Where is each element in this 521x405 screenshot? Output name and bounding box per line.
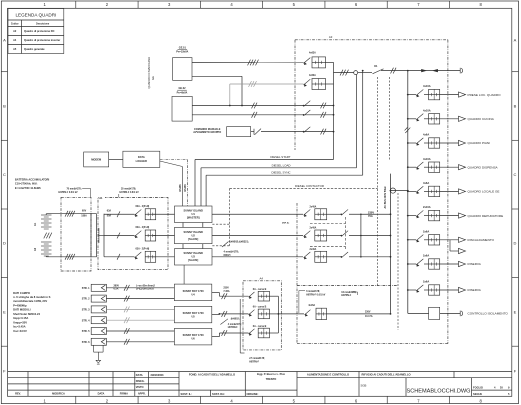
svg-text:MODEM: MODEM — [91, 158, 101, 162]
title block sheet numbers — [473, 385, 510, 396]
feeder breaker QUADRO PIANI 4x6A — [407, 133, 490, 149]
PV string STR.5 — [82, 328, 107, 335]
svg-text:B: B — [3, 104, 6, 109]
frame column ticks top/bottom — [76, 1, 450, 404]
wire DIESEL LOAD — [201, 163, 357, 206]
svg-text:DATI CAMPO: DATI CAMPO — [13, 291, 30, 295]
isolator on GE.02 neutral — [303, 110, 311, 116]
svg-text:280V: 280V — [114, 285, 120, 287]
inverter SUNNY BOY 1700 U5 — [174, 306, 211, 323]
svg-text:QUADRO LOCALE GE: QUADRO LOCALE GE — [468, 190, 500, 194]
svg-text:70A: 70A — [368, 214, 373, 218]
svg-text:STR. 3: STR. 3 — [82, 309, 90, 312]
svg-text:E: E — [3, 310, 6, 315]
title block engineers cell — [257, 372, 286, 381]
PE conductor to earth label — [219, 299, 245, 353]
svg-text:C: C — [3, 172, 6, 177]
svg-text:DATA: DATA — [136, 373, 143, 377]
wire manual start to diesel start — [261, 129, 334, 135]
svg-text:U1: U1 — [192, 212, 196, 216]
svg-text:STR. 2: STR. 2 — [82, 298, 90, 301]
svg-text:FOND. AI CADUTI DELL'ADAMELLO: FOND. AI CADUTI DELL'ADAMELLO — [189, 373, 235, 377]
panel A3 enclosure — [295, 35, 448, 150]
svg-text:63A: 63A — [107, 210, 112, 213]
svg-text:2x40A: 2x40A — [310, 248, 317, 251]
svg-text:Quadro generale: Quadro generale — [24, 47, 45, 51]
svg-text:mono/bifacciale 110W, 24V: mono/bifacciale 110W, 24V — [13, 299, 47, 303]
svg-text:C: C — [514, 172, 517, 177]
svg-text:SOST. DA:: SOST. DA: — [212, 392, 225, 396]
wire K1 to main bus — [391, 68, 461, 74]
svg-text:Uoc=43.5V: Uoc=43.5V — [13, 329, 27, 333]
generator GE.02 — [172, 87, 192, 121]
generator GE.01 — [173, 46, 192, 80]
ground — [96, 360, 101, 364]
generator merge bar — [334, 62, 354, 159]
svg-text:A: A — [3, 38, 6, 43]
wire DIESEL START — [195, 155, 334, 206]
svg-text:RS485: RS485 — [184, 184, 187, 192]
svg-text:E=4.3x2700=11.6kWh: E=4.3x2700=11.6kWh — [15, 186, 41, 190]
svg-text:CONTROLLO ISOLAMENTO: CONTROLLO ISOLAMENTO — [468, 312, 509, 316]
svg-text:GE.01: GE.01 — [179, 46, 187, 49]
svg-text:4x10A: 4x10A — [423, 157, 431, 161]
svg-text:FIRMA: FIRMA — [120, 392, 128, 396]
svg-text:H07RN-F: H07RN-F — [341, 295, 351, 297]
svg-text:6A - curva B: 6A - curva B — [253, 306, 267, 309]
busbar rating labels — [107, 210, 112, 218]
svg-text:RISERVA: RISERVA — [468, 262, 482, 266]
svg-text:H07RN-F: H07RN-F — [249, 361, 259, 363]
A4 earth cable label — [249, 358, 265, 363]
bus conductor marker — [405, 128, 411, 134]
title block filename — [406, 388, 470, 394]
RS485 labels at inverter — [179, 184, 187, 192]
wire GE.01 second to bypass — [192, 76, 243, 106]
PV string STR.4 — [82, 317, 107, 324]
feeder breaker QUADRO CUCINA 4x10A — [407, 108, 495, 124]
wire GE.02 riser to A3 breaker 2 — [229, 81, 304, 106]
svg-text:AC BUS 240V 50Hz: AC BUS 240V 50Hz — [384, 186, 387, 209]
svg-text:K1: K1 — [374, 64, 378, 68]
signal risers to generator controls — [357, 70, 364, 176]
svg-text:[SLAVE]: [SLAVE] — [188, 258, 198, 262]
feeder breaker RISERVA 2x6A — [407, 280, 482, 296]
frame row ticks left/right — [1, 72, 518, 347]
svg-text:2x6A: 2x6A — [423, 229, 429, 233]
svg-text:STR. 1: STR. 1 — [82, 287, 90, 290]
PV string STR.3 — [82, 306, 107, 313]
svg-text:D: D — [3, 241, 6, 246]
svg-text:QUADRO DEPURATORE: QUADRO DEPURATORE — [468, 214, 504, 218]
panel A5 enclosure — [297, 40, 448, 344]
svg-text:SUNNY ISLAND: SUNNY ISLAND — [183, 230, 203, 234]
svg-text:4x10A: 4x10A — [423, 108, 431, 112]
svg-text:6A - curva B: 6A - curva B — [253, 325, 267, 328]
svg-text:230V: 230V — [223, 288, 229, 290]
feeder breaker QUADRO LOCALE GE 4x6A — [407, 181, 500, 197]
wire U4 AC output to A4 — [212, 293, 249, 300]
PV string STR.2 — [82, 295, 107, 302]
battery fuse marks positive — [65, 211, 75, 217]
svg-text:n. 6 stringhe da 8 moduli in S: n. 6 stringhe da 8 moduli in S — [13, 295, 51, 299]
title block grid — [8, 372, 512, 397]
inverter SUNNY ISLAND U3 — [175, 249, 213, 265]
svg-text:70 mm&#178;: 70 mm&#178; — [66, 189, 81, 191]
wire string 5 to inverter — [106, 328, 174, 334]
svg-text:ALIMENTAZIONE E CONTROLLO: ALIMENTAZIONE E CONTROLLO — [307, 373, 349, 377]
svg-text:600V=: 600V= — [224, 253, 232, 257]
inverter SUNNY ISLAND U1 — [175, 206, 213, 223]
cable labels above PV line breaker — [299, 291, 358, 313]
svg-text:6.5A: 6.5A — [114, 288, 119, 291]
svg-text:Quadro di protezione DC: Quadro di protezione DC — [24, 29, 55, 33]
svg-text:LEGENDA QUADRI: LEGENDA QUADRI — [15, 13, 56, 18]
svg-text:DATA: DATA — [98, 392, 105, 396]
inverter output neutral tie — [360, 213, 362, 257]
svg-text:RISERVA: RISERVA — [468, 288, 482, 292]
battery G1 — [34, 215, 51, 229]
svg-text:STR. 5: STR. 5 — [82, 330, 90, 333]
wire DIESEL SYNC — [206, 171, 363, 206]
wire U6 AC output to A4 — [212, 330, 249, 337]
svg-text:DATI MODULI: DATI MODULI — [13, 308, 31, 312]
svg-text:SUNNY BOY 1700: SUNNY BOY 1700 — [183, 290, 205, 293]
feeder to distribution with meter — [390, 188, 408, 193]
SB output labels — [223, 288, 230, 293]
AC bus rating label — [368, 211, 374, 218]
svg-text:60V: 60V — [82, 211, 87, 213]
RS485 link from logger — [160, 160, 188, 207]
svg-text:Codice: Codice — [11, 23, 19, 25]
svg-text:29/02/2003: 29/02/2003 — [151, 373, 165, 377]
energy meter — [354, 71, 358, 75]
svg-text:BATTERIA ACCUMULATORI: BATTERIA ACCUMULATORI — [15, 178, 50, 182]
battery wire rating labels — [81, 211, 87, 218]
breaker A2.3 2x40A — [304, 248, 391, 262]
feeder breaker PRESE LOC. QUADRO 4x10A — [407, 84, 501, 100]
modem box — [84, 152, 109, 167]
breaker A2.2 2x40A — [304, 227, 391, 242]
svg-text:RS485: RS485 — [179, 184, 182, 192]
svg-text:A4: A4 — [260, 277, 264, 281]
wire string 1 to inverter — [106, 285, 174, 291]
svg-text:Quadro di protezione inverter: Quadro di protezione inverter — [24, 38, 60, 42]
svg-text:H07RN-F 0.6/1 kV: H07RN-F 0.6/1 kV — [120, 192, 140, 194]
breaker A4.3 6A curva B — [249, 325, 279, 338]
contactor mechanical linkage (dashed) — [310, 217, 346, 250]
changeover contactor K1 — [358, 64, 408, 74]
svg-text:U3: U3 — [192, 255, 196, 259]
breaker A4.2 6A curva B — [249, 306, 279, 319]
svg-text:Isc=3.45A: Isc=3.45A — [13, 325, 26, 329]
wire inverter U2 AC output — [212, 235, 303, 237]
svg-text:SEGUE: SEGUE — [473, 392, 482, 396]
svg-text:SCHEMABLOCCHI.DWG: SCHEMABLOCCHI.DWG — [406, 388, 470, 394]
svg-text:230V: 230V — [365, 311, 371, 313]
svg-text:SUNNY BOY 1700: SUNNY BOY 1700 — [183, 334, 205, 337]
isolator on GE.02 phase — [303, 101, 311, 107]
svg-text:Pn=6kVA: Pn=6kVA — [177, 92, 188, 95]
battery cells continuation marks — [44, 233, 52, 239]
distribution bus — [407, 71, 409, 314]
wire inverter U1 AC output — [212, 213, 303, 215]
PV feeder rating label — [365, 311, 373, 318]
svg-text:10.17A: 10.17A — [365, 315, 373, 318]
svg-text:&#9002;&#8321;: &#9002;&#8321; — [229, 240, 249, 244]
svg-text:QUADRO PIANI: QUADRO PIANI — [468, 141, 491, 145]
svg-text:MODIFICA: MODIFICA — [52, 392, 65, 396]
svg-text:QUADRO CUCINA: QUADRO CUCINA — [468, 117, 495, 121]
svg-text:180A: 180A — [81, 215, 87, 218]
svg-text:[SLAVE]: [SLAVE] — [188, 237, 198, 241]
wire GE.02 phase — [192, 103, 334, 109]
svg-text:6 mm&#178;: 6 mm&#178; — [306, 291, 320, 293]
breaker A3.2 4x63A — [304, 74, 334, 89]
svg-text:DIESEL LOAD: DIESEL LOAD — [272, 163, 291, 167]
svg-text:Pn=15kVA: Pn=15kVA — [176, 51, 188, 54]
svg-text:QUADRO DI MACCHINA: QUADRO DI MACCHINA — [147, 57, 151, 89]
svg-text:63A - 2(P+N): 63A - 2(P+N) — [136, 248, 150, 251]
PV line breaker 4x16A — [305, 304, 392, 320]
svg-text:A3: A3 — [329, 35, 333, 39]
panel A1 enclosure — [98, 196, 168, 270]
svg-text:Shell Solar SM110-24: Shell Solar SM110-24 — [13, 312, 40, 316]
PV string STR.6 — [82, 338, 107, 345]
DC busbar — [91, 214, 104, 257]
svg-text:DIESEL CONTACTOR: DIESEL CONTACTOR — [295, 184, 324, 188]
svg-text:A: A — [514, 38, 517, 43]
contactor K1 enclosure (dashed) — [378, 77, 390, 286]
PV field data text — [13, 291, 51, 333]
svg-text:2P(C)/GRG30US: 2P(C)/GRG30US — [136, 289, 154, 291]
title block sheet title cell — [307, 373, 349, 377]
svg-text:H07RN-F 0.6/1 kV: H07RN-F 0.6/1 kV — [306, 294, 326, 296]
svg-text:DIESEL SYNC: DIESEL SYNC — [271, 171, 290, 175]
title block SGB code — [361, 384, 367, 388]
svg-text:REV.: REV. — [15, 392, 21, 396]
cable callout 4mm2 — [220, 319, 241, 329]
svg-text:2x10A: 2x10A — [423, 205, 431, 209]
svg-text:16 mm&#178;: 16 mm&#178; — [341, 292, 356, 294]
wire inverter U3 AC output — [212, 256, 303, 258]
isolator on start command — [303, 127, 311, 133]
svg-text:SUNNY ISLAND: SUNNY ISLAND — [183, 209, 203, 213]
breaker A4.1 6A curva B — [249, 288, 279, 301]
svg-text:DATA: DATA — [138, 155, 145, 159]
RS485 drop to U4 — [183, 265, 185, 284]
svg-text:GE.02: GE.02 — [178, 87, 186, 90]
breaker A1.1 63A 2P — [104, 205, 175, 220]
svg-text:63A - 2(P+N): 63A - 2(P+N) — [136, 226, 150, 229]
svg-text:VISTO: VISTO — [136, 385, 144, 389]
svg-text:35 mm&#178;: 35 mm&#178; — [121, 189, 136, 191]
battery fuse marks negative — [65, 254, 75, 260]
svg-text:L=xx+50m 6mm2: L=xx+50m 6mm2 — [136, 285, 155, 287]
supply connector arrows — [421, 69, 438, 72]
AC bus — [384, 174, 392, 314]
svg-text:QUADRO DISPENSA: QUADRO DISPENSA — [468, 165, 499, 169]
manual start contact — [251, 129, 261, 135]
svg-text:E: E — [514, 310, 517, 315]
svg-text:LOGGER: LOGGER — [136, 159, 147, 163]
svg-text:STR. 4: STR. 4 — [82, 319, 90, 322]
svg-text:GE: GE — [151, 76, 155, 80]
manual start command box — [193, 127, 250, 137]
svg-text:H07RN-F 0.6/1 kV: H07RN-F 0.6/1 kV — [58, 192, 78, 194]
svg-text:&#9002;: &#9002; — [231, 319, 240, 321]
svg-text:D: D — [514, 241, 517, 246]
svg-text:4x63A: 4x63A — [309, 52, 316, 55]
inverter SUNNY BOY 1700 U6 — [174, 328, 211, 345]
supply terminal — [460, 68, 463, 74]
inverter SUNNY ISLAND U2 — [175, 227, 213, 243]
svg-text:63A - 2(P+N): 63A - 2(P+N) — [136, 205, 150, 208]
panel A2 enclosure — [297, 203, 398, 344]
svg-text:C10=2700Ah; 60V;: C10=2700Ah; 60V; — [15, 182, 38, 186]
svg-text:P=4080Wp: P=4080Wp — [13, 303, 27, 307]
svg-text:ORIGINE:: ORIGINE: — [247, 392, 259, 396]
wire string 4 to inverter — [106, 317, 174, 323]
svg-text:RISCALDAMENTO: RISCALDAMENTO — [468, 238, 495, 242]
legend table LEGENDA QUADRI — [8, 9, 64, 54]
svg-text:2.5 mm&#178;: 2.5 mm&#178; — [249, 358, 265, 360]
svg-text:Ingg. P. Bucci e L. Pivo: Ingg. P. Bucci e L. Pivo — [257, 372, 286, 376]
breaker A1.3 63A 2P — [104, 248, 175, 263]
svg-text:H07RN-F: H07RN-F — [228, 327, 238, 329]
inverter control tie (dashed) — [212, 188, 229, 245]
svg-text:SUNNY ISLAND: SUNNY ISLAND — [183, 251, 203, 255]
wire string 2 to inverter — [106, 296, 174, 302]
wire GE.01 phase to A3 — [192, 60, 304, 66]
svg-text:U2: U2 — [192, 233, 196, 237]
breaker A2.1 2x40A — [304, 205, 391, 220]
svg-text:DI: DI — [500, 385, 503, 389]
cable callout 4mm2 600V — [222, 240, 249, 257]
svg-text:A1: A1 — [99, 196, 103, 200]
svg-text:SUNNY BOY 1700: SUNNY BOY 1700 — [183, 312, 205, 315]
svg-text:AVVIAMENTO GRUPPO: AVVIAMENTO GRUPPO — [193, 131, 221, 134]
breaker A3.1 4x63A — [304, 52, 334, 68]
title block client cell — [189, 373, 235, 377]
svg-text:Impp=3.15A: Impp=3.15A — [13, 316, 28, 320]
string frames earth bracket — [94, 345, 104, 360]
inverter SUNNY BOY 1700 U4 — [174, 284, 211, 301]
svg-text:SGB: SGB — [361, 384, 367, 388]
battery fuse box — [61, 197, 91, 271]
battery G2 — [34, 242, 51, 256]
svg-text:4x6A: 4x6A — [423, 181, 429, 185]
feeder breaker QUADRO DISPENSA 4x10A — [407, 157, 499, 173]
cable label 35mm2 — [119, 189, 139, 198]
svg-text:4x16A: 4x16A — [308, 304, 315, 307]
svg-text:2x6A: 2x6A — [423, 254, 429, 258]
svg-text:TRENTO: TRENTO — [266, 377, 277, 381]
svg-text:SOST. IL:: SOST. IL: — [181, 392, 193, 396]
svg-text:FOGLIO: FOGLIO — [473, 385, 483, 389]
cable label 2NF dc — [282, 221, 290, 224]
string wire labels — [114, 285, 156, 290]
svg-text:6A - curva B: 6A - curva B — [253, 288, 267, 291]
feeder breaker QUADRO DEPURATORE 2x10A — [407, 205, 503, 221]
svg-text:Descrizione: Descrizione — [36, 23, 50, 25]
wire string 3 to inverter — [106, 307, 174, 313]
wire GE.02 neutral — [192, 112, 334, 118]
svg-text:4 mm&#178;: 4 mm&#178; — [228, 323, 242, 326]
svg-text:2x40A: 2x40A — [310, 227, 317, 230]
svg-text:B: B — [514, 104, 517, 109]
wire U5 AC output to A4 — [212, 311, 249, 317]
svg-text:DIESEL START: DIESEL START — [270, 155, 290, 159]
svg-text:STR. 6: STR. 6 — [82, 341, 90, 344]
svg-text:Umpp=35V: Umpp=35V — [13, 320, 27, 324]
svg-text:RIFUGIO AI CADUTI DELL'ADAMELL: RIFUGIO AI CADUTI DELL'ADAMELLO — [362, 373, 411, 377]
battery positive wire — [46, 214, 96, 215]
A4 output bus — [278, 296, 305, 333]
machine room label (rotated) — [147, 57, 155, 89]
svg-text:50A: 50A — [107, 215, 112, 218]
title block date/sign texts — [136, 373, 164, 389]
battery negative wire — [46, 255, 96, 258]
battery data text — [15, 178, 50, 190]
wire string 6 to inverter — [106, 339, 174, 345]
svg-text:[MASTER]: [MASTER] — [187, 215, 200, 219]
insulation monitor — [408, 307, 509, 319]
title block SOST row texts — [181, 392, 259, 396]
inverter interlink wires — [183, 223, 203, 249]
feeder breaker RISCALDAMENTO 2x6A — [407, 229, 495, 253]
svg-text:DISEG.: DISEG. — [136, 379, 145, 383]
title block project cell — [362, 373, 411, 377]
svg-text:PRESE LOC. QUADRO: PRESE LOC. QUADRO — [468, 93, 502, 97]
title block revision table texts — [15, 392, 146, 396]
svg-text:4x63A: 4x63A — [309, 74, 316, 77]
PV string STR.1 — [82, 284, 107, 291]
svg-text:APPR.: APPR. — [138, 393, 146, 396]
cable label 70mm2 — [58, 189, 90, 198]
svg-text:2x40A: 2x40A — [310, 205, 317, 208]
svg-text:2x6A: 2x6A — [423, 280, 429, 284]
svg-text:2NF 4c: 2NF 4c — [282, 221, 290, 224]
data logger box — [123, 151, 160, 167]
svg-text:7.36A: 7.36A — [223, 290, 230, 293]
svg-text:4x6A: 4x6A — [423, 133, 429, 137]
svg-text:230V: 230V — [368, 211, 374, 215]
breaker A1.2 63A 2P — [104, 226, 175, 241]
panel A4 enclosure — [243, 277, 281, 350]
wire modem to logger — [109, 159, 123, 161]
feeder breaker RISERVA 2x6A — [407, 254, 482, 270]
svg-text:4x10A: 4x10A — [423, 84, 431, 88]
wire DIESEL CONTACTOR (dashed) — [230, 184, 378, 188]
